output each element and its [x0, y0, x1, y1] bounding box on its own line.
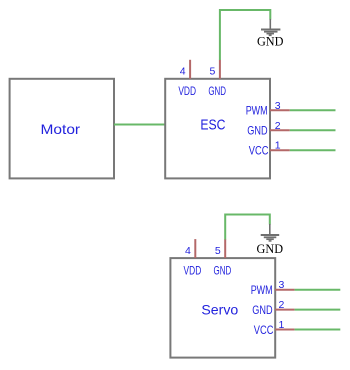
wire from ESC pin 3 [290, 109, 336, 111]
svg-text:PWM: PWM [246, 104, 268, 118]
svg-text:GND: GND [257, 241, 284, 256]
svg-text:VDD: VDD [184, 264, 202, 278]
svg-text:1: 1 [275, 140, 281, 152]
motor M1 box [10, 79, 114, 179]
svg-text:GND: GND [252, 303, 273, 317]
wire Motor to ESC left pin [114, 124, 165, 126]
svg-text:VCC: VCC [249, 144, 269, 158]
wire from ESC pin 1 [290, 149, 336, 151]
svg-text:VCC: VCC [254, 323, 274, 337]
wire from Servo pin 1 [295, 329, 341, 331]
svg-text:Motor: Motor [41, 121, 81, 137]
svg-text:2: 2 [275, 120, 281, 132]
ground symbol (bottom) [261, 224, 280, 241]
wire net GND: ESC pin 5 to ground symbol (top) [220, 10, 270, 60]
wire from ESC pin 2 [290, 129, 336, 131]
svg-text:GND: GND [214, 264, 232, 278]
svg-text:4: 4 [185, 245, 191, 257]
ESC pin 5 GND stub [219, 60, 221, 79]
ESC pin 3 PWM stub [270, 109, 290, 111]
svg-text:3: 3 [275, 100, 281, 112]
Servo pin 2 GND stub [275, 309, 294, 311]
wire from Servo pin 2 [295, 309, 341, 311]
svg-text:GND: GND [208, 84, 226, 98]
Servo U2 box [170, 258, 275, 358]
svg-text:VDD: VDD [178, 84, 196, 98]
svg-text:PWM: PWM [251, 283, 273, 297]
Servo pin 3 PWM stub [275, 289, 294, 291]
svg-text:GND: GND [247, 124, 268, 138]
Servo pin 5 GND stub [224, 239, 226, 258]
ground symbol (top) [261, 19, 280, 35]
svg-text:3: 3 [278, 279, 284, 291]
wire from Servo pin 3 [295, 289, 341, 291]
Servo pin 1 VCC stub [275, 329, 294, 331]
svg-text:2: 2 [278, 299, 284, 311]
svg-text:4: 4 [180, 66, 186, 78]
wire net GND: Servo pin 5 to ground symbol (bottom) [225, 215, 270, 240]
Servo pin 4 VDD stub [194, 239, 196, 258]
svg-text:GND: GND [257, 33, 284, 48]
ESC pin 1 VCC stub [270, 149, 290, 151]
svg-text:Servo: Servo [201, 302, 238, 318]
svg-text:ESC: ESC [200, 118, 225, 134]
ESC pin 2 GND stub [270, 129, 290, 131]
svg-text:1: 1 [278, 319, 284, 331]
ESC pin 4 VDD stub [189, 60, 191, 79]
svg-text:5: 5 [215, 245, 221, 257]
svg-text:5: 5 [210, 66, 216, 78]
ESC U1 box [165, 79, 270, 179]
